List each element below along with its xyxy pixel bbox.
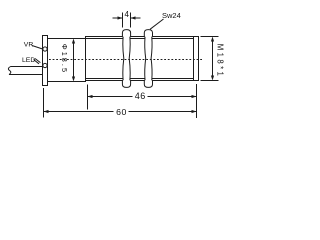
VR circle xyxy=(43,47,47,51)
dim 60 extension line left xyxy=(43,88,45,118)
nut 2 (Sw24) xyxy=(144,30,152,88)
dim 60 arrowheads xyxy=(44,110,49,113)
dim 46 arrowheads xyxy=(88,95,93,98)
dim 46 extension line left xyxy=(87,85,89,110)
svg-text:M18*1: M18*1 xyxy=(216,44,225,79)
svg-text:60: 60 xyxy=(116,107,127,117)
VR leader xyxy=(32,46,43,50)
svg-text:Φ18.5: Φ18.5 xyxy=(60,44,69,74)
svg-text:46: 46 xyxy=(135,91,146,101)
rear end-cap block xyxy=(43,36,48,86)
end chamfer line xyxy=(193,37,195,81)
dim 4 arrow tails xyxy=(113,17,141,19)
dim 60 line xyxy=(44,111,197,113)
svg-text:4: 4 xyxy=(124,10,129,19)
cable xyxy=(9,67,43,75)
svg-text:LED: LED xyxy=(22,57,35,64)
LED leader xyxy=(34,59,41,64)
dim 4 extension lines xyxy=(123,13,131,28)
cable break xyxy=(8,67,10,75)
svg-text:VR: VR xyxy=(24,42,34,49)
body (Ø18.5 section) xyxy=(48,39,86,82)
centerline (axis) xyxy=(49,59,202,61)
dim Ø18.5 arrowheads xyxy=(72,39,75,44)
dim M18*1 extension lines xyxy=(201,37,219,81)
LED circle xyxy=(43,63,47,67)
Sw24 leader xyxy=(150,19,164,29)
dim M18*1 line xyxy=(212,39,214,79)
thread root lines xyxy=(86,39,194,79)
nut 1 (Sw24) xyxy=(122,30,130,88)
dim 46 line xyxy=(88,96,197,98)
dim 4 arrowheads xyxy=(118,16,123,19)
dim 46/60 extension line right xyxy=(196,84,198,118)
dim M18*1 arrowheads xyxy=(211,37,214,42)
svg-text:Sw24: Sw24 xyxy=(162,11,181,20)
dim Ø18.5 arrow line xyxy=(73,40,75,80)
threaded tube outer outline xyxy=(86,37,199,81)
